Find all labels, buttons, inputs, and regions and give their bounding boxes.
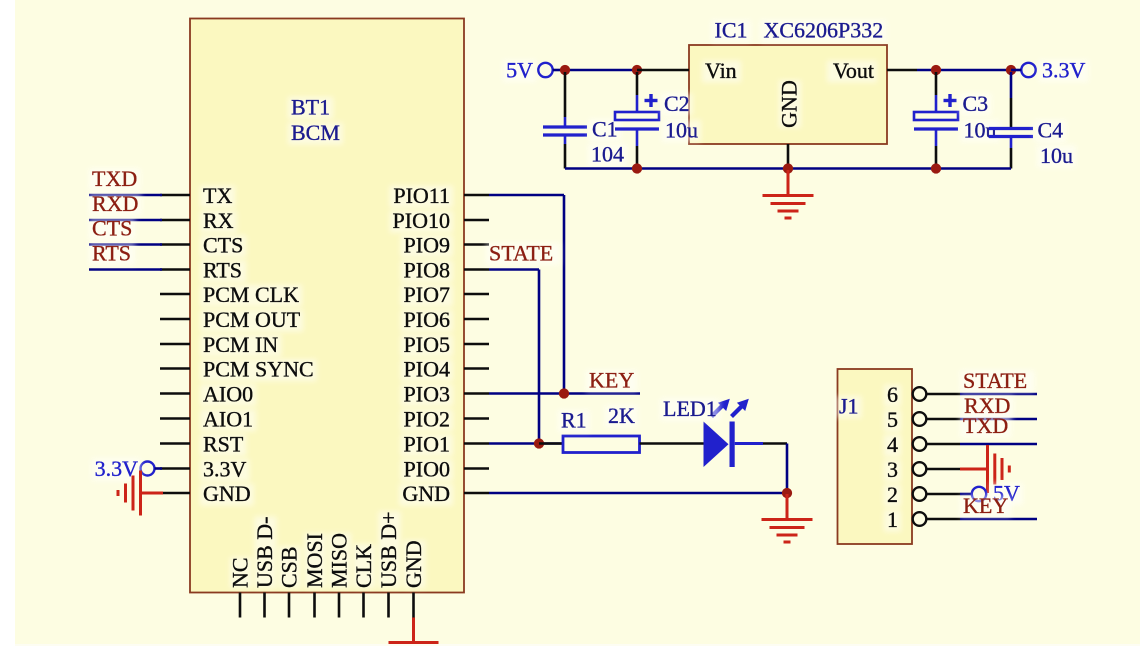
svg-text:BCM: BCM bbox=[291, 120, 340, 145]
wire Vout rail bbox=[917, 69, 1011, 72]
svg-text:GND: GND bbox=[203, 481, 251, 506]
svg-text:AIO1: AIO1 bbox=[203, 407, 253, 432]
designator C2 bbox=[661, 94, 693, 116]
pin 2 (J1) bbox=[884, 485, 901, 507]
pin 3 (J1) bbox=[884, 460, 901, 482]
svg-text:RTS: RTS bbox=[203, 258, 242, 283]
net label TXD (J1) bbox=[960, 416, 1011, 438]
pin PIO3 (BT1 right) bbox=[464, 392, 489, 395]
wire PIO8 to PIO1 node (STATE) bbox=[489, 268, 539, 271]
pin GND (BT1 right) bbox=[464, 492, 489, 495]
net label STATE bbox=[486, 243, 560, 265]
pin USB D- (BT1 bottom) bbox=[263, 593, 266, 618]
wire BT1 right GND to ground node bbox=[489, 492, 787, 495]
junction C4 top bbox=[1006, 65, 1016, 75]
value 10u (C2) bbox=[662, 120, 701, 142]
pin MISO (BT1 bottom) bbox=[338, 593, 341, 618]
pin GND (BT1 left) bbox=[160, 492, 190, 495]
pin CLK (BT1 bottom) bbox=[362, 593, 365, 618]
junction PIO11/PIO3 bbox=[559, 388, 569, 398]
wire ground rail bbox=[565, 167, 1011, 170]
svg-text:R1: R1 bbox=[561, 408, 587, 433]
wire 5V rail bbox=[565, 69, 637, 72]
svg-text:PCM OUT: PCM OUT bbox=[203, 307, 301, 332]
svg-text:3.3V: 3.3V bbox=[203, 457, 247, 482]
connector J1 body bbox=[838, 369, 913, 544]
net label TXD bbox=[89, 168, 140, 190]
wire net RXD (J1-5) bbox=[960, 418, 1037, 421]
designator C3 bbox=[960, 94, 992, 116]
ground (regulator) bbox=[787, 170, 790, 195]
IC IC1 body bbox=[689, 45, 887, 144]
svg-text:PIO10: PIO10 bbox=[393, 208, 450, 233]
svg-text:XC6206P332: XC6206P332 bbox=[764, 18, 884, 43]
capacitor C2 bbox=[636, 72, 639, 95]
net label KEY bbox=[586, 370, 637, 392]
designator J1 bbox=[836, 396, 862, 418]
svg-text:RX: RX bbox=[203, 208, 234, 233]
svg-text:TXD: TXD bbox=[92, 166, 137, 191]
pin PIO9 (BT1 right) bbox=[464, 243, 489, 246]
svg-text:PCM CLK: PCM CLK bbox=[203, 282, 299, 307]
svg-text:CTS: CTS bbox=[92, 215, 132, 240]
svg-text:3.3V: 3.3V bbox=[1042, 58, 1086, 83]
svg-text:104: 104 bbox=[591, 142, 624, 167]
pin GND (BT1 bottom) bbox=[412, 593, 415, 618]
svg-text:KEY: KEY bbox=[963, 493, 1008, 518]
svg-text:AIO0: AIO0 bbox=[203, 382, 253, 407]
wire net KEY (J1-1) bbox=[960, 518, 1037, 521]
pin CSB (BT1 bottom) bbox=[288, 593, 291, 618]
power port 5V (top left) bbox=[503, 60, 536, 82]
pin PIO11 (BT1 right) bbox=[464, 194, 489, 197]
value 10u (C4) bbox=[1037, 146, 1076, 168]
svg-text:GND: GND bbox=[401, 540, 426, 588]
svg-text:PCM IN: PCM IN bbox=[203, 332, 278, 357]
svg-text:MOSI: MOSI bbox=[302, 533, 327, 588]
svg-text:LED1: LED1 bbox=[663, 396, 717, 421]
junction C3 bottom bbox=[931, 163, 941, 173]
svg-text:C4: C4 bbox=[1038, 118, 1064, 143]
svg-text:IC1: IC1 bbox=[715, 18, 748, 43]
svg-text:RTS: RTS bbox=[92, 240, 131, 265]
ground (LED cathode) bbox=[786, 494, 789, 519]
svg-text:PIO9: PIO9 bbox=[404, 233, 450, 258]
svg-text:2: 2 bbox=[887, 482, 898, 507]
pin PIO2 (BT1 right) bbox=[464, 417, 489, 420]
wire net TXD (J1-4) bbox=[960, 443, 1037, 446]
power port 5V (J1-2) bbox=[960, 493, 972, 496]
capacitor C1 bbox=[564, 72, 567, 117]
svg-text:1: 1 bbox=[887, 507, 898, 532]
pin PIO6 (BT1 right) bbox=[464, 318, 489, 321]
IC BT1 body bbox=[190, 19, 464, 593]
designator R1 bbox=[558, 410, 590, 432]
resistor R1 bbox=[539, 442, 563, 445]
wire net CTS bbox=[89, 243, 162, 246]
ground (BT1 bottom GND pin) bbox=[412, 618, 415, 643]
wire PIO1 to R1 bbox=[489, 442, 563, 445]
pin 6 (J1) bbox=[884, 385, 901, 407]
svg-text:STATE: STATE bbox=[489, 241, 553, 266]
svg-text:3: 3 bbox=[887, 457, 898, 482]
junction C1 top bbox=[560, 65, 570, 75]
svg-text:PIO6: PIO6 bbox=[404, 307, 450, 332]
svg-text:PCM SYNC: PCM SYNC bbox=[203, 357, 314, 382]
svg-text:10u: 10u bbox=[1040, 143, 1073, 168]
pin PIO0 (BT1 right) bbox=[464, 467, 489, 470]
power port 3.3V (left) bbox=[141, 462, 155, 476]
svg-text:NC: NC bbox=[228, 557, 253, 588]
capacitor C3 bbox=[935, 72, 938, 95]
junction PIO8/PIO1 bbox=[534, 438, 544, 448]
svg-text:5V: 5V bbox=[506, 58, 533, 83]
ground (J1-3) bbox=[960, 468, 987, 471]
svg-text:BT1: BT1 bbox=[291, 95, 330, 120]
svg-text:Vin: Vin bbox=[705, 58, 737, 83]
pin Vout (IC1) bbox=[887, 69, 917, 72]
pin NC (BT1 bottom) bbox=[239, 593, 242, 618]
pin PCM IN (BT1 left) bbox=[160, 343, 190, 346]
svg-text:5: 5 bbox=[887, 407, 898, 432]
designator LED1 bbox=[660, 399, 720, 421]
svg-text:CLK: CLK bbox=[351, 544, 376, 588]
designator C1 bbox=[589, 119, 621, 141]
svg-text:KEY: KEY bbox=[589, 368, 634, 393]
svg-text:CTS: CTS bbox=[203, 233, 243, 258]
pin 3.3V (BT1 left) bbox=[160, 467, 190, 470]
junction IC1 GND bbox=[783, 163, 793, 173]
svg-text:PIO0: PIO0 bbox=[404, 457, 450, 482]
svg-text:4: 4 bbox=[887, 432, 898, 457]
svg-text:PIO11: PIO11 bbox=[393, 183, 450, 208]
pin PIO7 (BT1 right) bbox=[464, 293, 489, 296]
svg-text:PIO8: PIO8 bbox=[404, 258, 450, 283]
svg-text:GND: GND bbox=[777, 80, 802, 128]
svg-text:RXD: RXD bbox=[92, 191, 138, 216]
pin RX (BT1 left) bbox=[160, 219, 190, 222]
junction C2 bottom bbox=[632, 163, 642, 173]
svg-text:10u: 10u bbox=[665, 118, 698, 143]
value 104 bbox=[588, 144, 627, 166]
pin PCM SYNC (BT1 left) bbox=[160, 367, 190, 370]
pin PCM OUT (BT1 left) bbox=[160, 318, 190, 321]
pin MOSI (BT1 bottom) bbox=[313, 593, 316, 618]
wire LED1 cathode to ground node bbox=[735, 442, 763, 445]
net label RXD bbox=[89, 193, 141, 215]
wire net TXD bbox=[89, 194, 162, 197]
pin PCM CLK (BT1 left) bbox=[160, 293, 190, 296]
svg-text:MISO: MISO bbox=[327, 533, 352, 588]
junction C3 top bbox=[931, 65, 941, 75]
designator BT1 bbox=[288, 97, 333, 119]
pin 4 (J1) bbox=[884, 435, 901, 457]
svg-text:PIO2: PIO2 bbox=[404, 407, 450, 432]
svg-text:PIO7: PIO7 bbox=[404, 282, 450, 307]
svg-text:PIO3: PIO3 bbox=[404, 382, 450, 407]
pin CTS (BT1 left) bbox=[160, 243, 190, 246]
net label KEY (J1) bbox=[960, 496, 1011, 518]
svg-text:TX: TX bbox=[203, 183, 232, 208]
svg-text:PIO5: PIO5 bbox=[404, 332, 450, 357]
part number XC6206P332 bbox=[761, 20, 887, 42]
capacitor C4 bbox=[1010, 72, 1013, 98]
ground (left of BT1 GND pin) bbox=[141, 492, 163, 495]
pin PIO8 (BT1 right) bbox=[464, 268, 489, 271]
svg-text:STATE: STATE bbox=[963, 368, 1027, 393]
pin RST (BT1 left) bbox=[160, 442, 190, 445]
svg-text:C3: C3 bbox=[963, 91, 989, 116]
wire net STATE (J1-6) bbox=[960, 393, 1037, 396]
pin PIO10 (BT1 right) bbox=[464, 219, 489, 222]
pin TX (BT1 left) bbox=[160, 194, 190, 197]
svg-text:GND: GND bbox=[402, 481, 450, 506]
pin AIO1 (BT1 left) bbox=[160, 417, 190, 420]
wire PIO11 to KEY node bbox=[489, 194, 564, 197]
wire KEY net (PIO3) bbox=[489, 392, 640, 395]
svg-text:PIO4: PIO4 bbox=[404, 357, 450, 382]
svg-text:PIO1: PIO1 bbox=[404, 432, 450, 457]
svg-text:6: 6 bbox=[887, 382, 898, 407]
svg-text:J1: J1 bbox=[839, 394, 859, 419]
wire net RXD bbox=[89, 219, 162, 222]
pin USB D+ (BT1 bottom) bbox=[387, 593, 390, 618]
wire R1 to LED1 bbox=[640, 442, 704, 445]
designator BCM bbox=[288, 123, 343, 145]
designator IC1 bbox=[712, 20, 751, 42]
designator C4 bbox=[1035, 120, 1067, 142]
svg-text:USB D+: USB D+ bbox=[376, 511, 401, 588]
pin PIO1 (BT1 right) bbox=[464, 442, 489, 445]
junction LED/GND bbox=[782, 488, 792, 498]
LED LED1 bbox=[704, 422, 729, 468]
pin PIO5 (BT1 right) bbox=[464, 343, 489, 346]
pin 1 (J1) bbox=[884, 510, 901, 532]
junction C2 top bbox=[632, 65, 642, 75]
svg-text:C2: C2 bbox=[664, 91, 690, 116]
net label CTS bbox=[89, 218, 135, 240]
net label RTS bbox=[89, 243, 135, 265]
pin GND (IC1) bbox=[787, 144, 790, 169]
pin Vin (IC1) bbox=[637, 69, 689, 72]
pin RTS (BT1 left) bbox=[160, 268, 190, 271]
power port 3.3V (top right) bbox=[1021, 63, 1035, 77]
svg-text:2K: 2K bbox=[608, 403, 635, 428]
net label RXD (J1) bbox=[961, 396, 1013, 418]
svg-text:CSB: CSB bbox=[277, 546, 302, 588]
svg-text:TXD: TXD bbox=[963, 413, 1008, 438]
pin AIO0 (BT1 left) bbox=[160, 392, 190, 395]
value 2K bbox=[605, 406, 638, 428]
wire net RTS bbox=[89, 268, 162, 271]
svg-text:Vout: Vout bbox=[833, 58, 874, 83]
svg-text:USB D-: USB D- bbox=[252, 516, 277, 588]
pin 5 (J1) bbox=[884, 410, 901, 432]
pin PIO4 (BT1 right) bbox=[464, 367, 489, 370]
net label STATE (J1) bbox=[960, 371, 1034, 393]
svg-text:RST: RST bbox=[203, 432, 244, 457]
value 10u (C3) bbox=[961, 120, 1000, 142]
